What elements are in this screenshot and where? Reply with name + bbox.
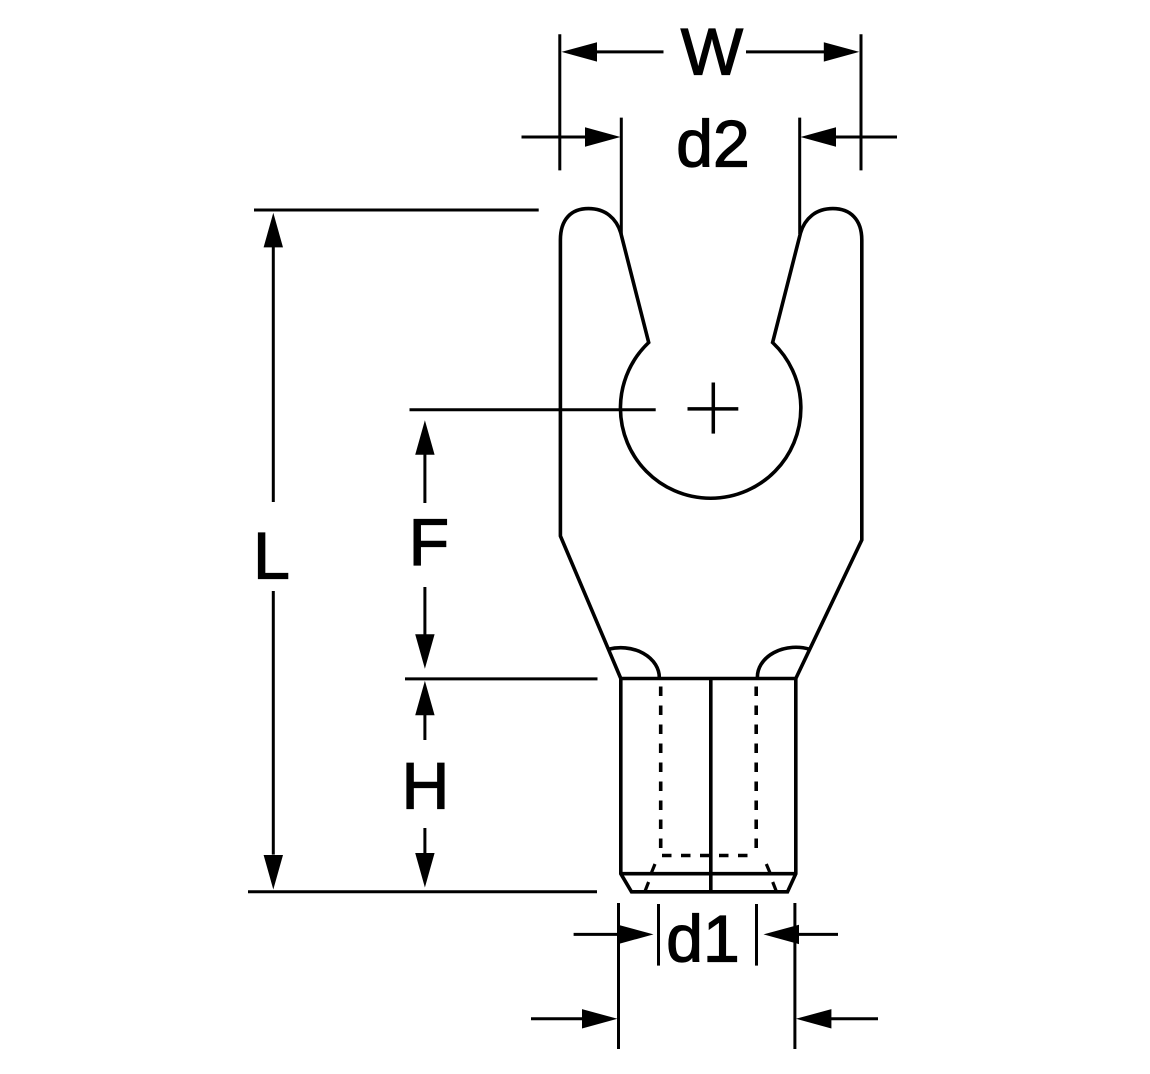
svg-text:F: F [409, 505, 449, 579]
svg-text:L: L [253, 518, 290, 592]
svg-text:W: W [681, 15, 744, 89]
svg-text:H: H [402, 749, 450, 823]
svg-text:d1: d1 [666, 902, 739, 976]
svg-text:d2: d2 [676, 107, 749, 181]
